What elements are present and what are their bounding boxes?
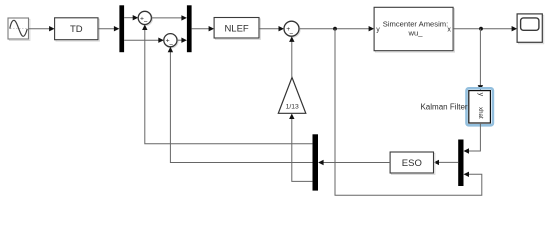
wire sum1 to mux2 [151,15,187,20]
wire demux3 z2 feedback to sum2 [168,47,313,163]
gain triangle 1/13 [278,77,306,113]
svg-text:NLEF: NLEF [224,24,248,35]
svg-text:Simcenter Amesim:: Simcenter Amesim: [383,19,448,28]
svg-text:−: − [144,19,148,26]
block ESO [390,152,435,174]
wire demux3 z3 to gain 1/13 [289,114,313,182]
block Simcenter Amesim [374,7,454,52]
svg-text:y: y [477,93,484,97]
svg-text:1/13: 1/13 [286,104,299,111]
wire demux3 z1 feedback to sum1 [142,25,313,144]
wire NLEF to sum3 [259,26,284,31]
wire mux2 to NLEF [192,26,215,31]
svg-text:y: y [376,26,380,33]
node u junction dot [333,27,337,31]
svg-text:ESO: ESO [402,158,422,169]
svg-text:wu_: wu_ [408,28,424,37]
sum junction S3 [284,21,300,37]
demux1 bar [119,5,124,52]
mux4 bar [458,140,463,187]
wire Kalman xhat to mux4 input 1 [464,123,481,154]
svg-text:xhat: xhat [477,107,484,119]
demux3 bar [313,134,319,190]
wire x node down to Kalman Filter [478,29,483,91]
sine wave source block [8,18,30,40]
svg-text:Kalman Filter: Kalman Filter [420,102,467,111]
wire Amesim to scope [453,26,517,31]
wire u feedback to mux4 input 2 [335,29,482,196]
wire sine to TD [29,26,55,31]
block TD [55,18,100,41]
svg-text:−: − [289,31,293,38]
Kalman Filter block (selected, blue highlight) [467,88,493,125]
svg-text:TD: TD [70,24,83,35]
wire gain to sum3 [289,36,294,77]
wire demux1 out2 to sum2 [124,38,164,43]
wire TD to demux1 [98,26,119,31]
node x junction dot [479,27,483,31]
wire demux1 out1 to sum1 [124,15,138,20]
sum junction S1 [138,11,152,26]
wire sum2 to mux2 [177,38,187,43]
svg-text:x: x [447,26,451,33]
block NLEF [214,18,260,40]
sum junction S2 [164,34,178,49]
svg-text:−: − [169,42,173,49]
wire ESO to demux3 [318,160,390,165]
wire mux4 to ESO [434,160,459,165]
wire sum3 to Amesim [299,26,374,31]
scope block [517,14,544,44]
mux2 bar [187,5,192,52]
